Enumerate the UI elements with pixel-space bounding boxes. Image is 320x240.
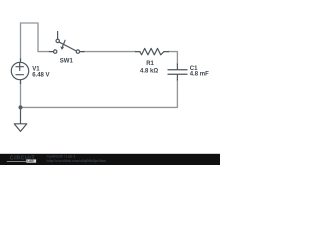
switch SW1 left throw terminal [54,50,57,53]
light gray interconnect wires [21,23,178,107]
ground lead [20,107,22,123]
capacitor C1 top plate [168,69,187,71]
voltage source V1 lead top [20,59,22,63]
resistor R1 lead left [136,51,140,53]
svg-text:R1: R1 [146,61,154,67]
V1 plus sign [16,63,23,70]
switch SW1 top throw terminal [56,39,59,42]
svg-text:LAB: LAB [27,159,34,163]
switch SW1 lead out of common [80,51,84,53]
V1 minus sign [16,74,23,76]
svg-text:4.8 kΩ: 4.8 kΩ [140,68,158,74]
svg-text:V1: V1 [32,66,40,72]
wire: C1 bottom to bottom-right corner, across bottom to ground node [22,80,177,108]
svg-text:SW1: SW1 [60,58,74,64]
voltage source V1 lead bottom [20,80,22,84]
wire: V1 top up, over, down to SW1 left throw [21,23,51,60]
svg-text:4.8 mF: 4.8 mF [190,71,209,77]
svg-text:6.48 V: 6.48 V [32,73,49,79]
capacitor C1 bottom plate [168,73,187,75]
svg-text:http://circuitlab.com/c6q8h8c5: http://circuitlab.com/c6q8h8c5pn5aw [47,159,107,163]
wire: R1 right lead to top-right corner, down to C1 [168,52,177,65]
switch SW1 toggle arrow shaft [62,40,65,47]
resistor R1 lead right [164,51,169,53]
switch SW1 toggle arrowhead [61,47,64,50]
switch SW1 top throw stub [57,32,59,40]
footer logo LAB box [26,159,36,162]
switch SW1 lead into left throw [50,51,54,53]
junction node at ground [19,105,23,109]
footer logo wire motif [7,160,26,162]
switch SW1 lever [59,42,76,51]
footer bar [0,154,220,165]
switch SW1 common terminal [76,50,79,53]
resistor R1 zigzag [140,48,164,54]
wire: V1 bottom down to ground node [20,82,22,106]
ground triangle [14,124,27,132]
capacitor C1 lead bottom [176,75,178,80]
capacitor C1 lead top [176,64,178,69]
wire: SW1 common to R1 left lead [82,51,136,53]
voltage source V1 body [11,62,28,79]
